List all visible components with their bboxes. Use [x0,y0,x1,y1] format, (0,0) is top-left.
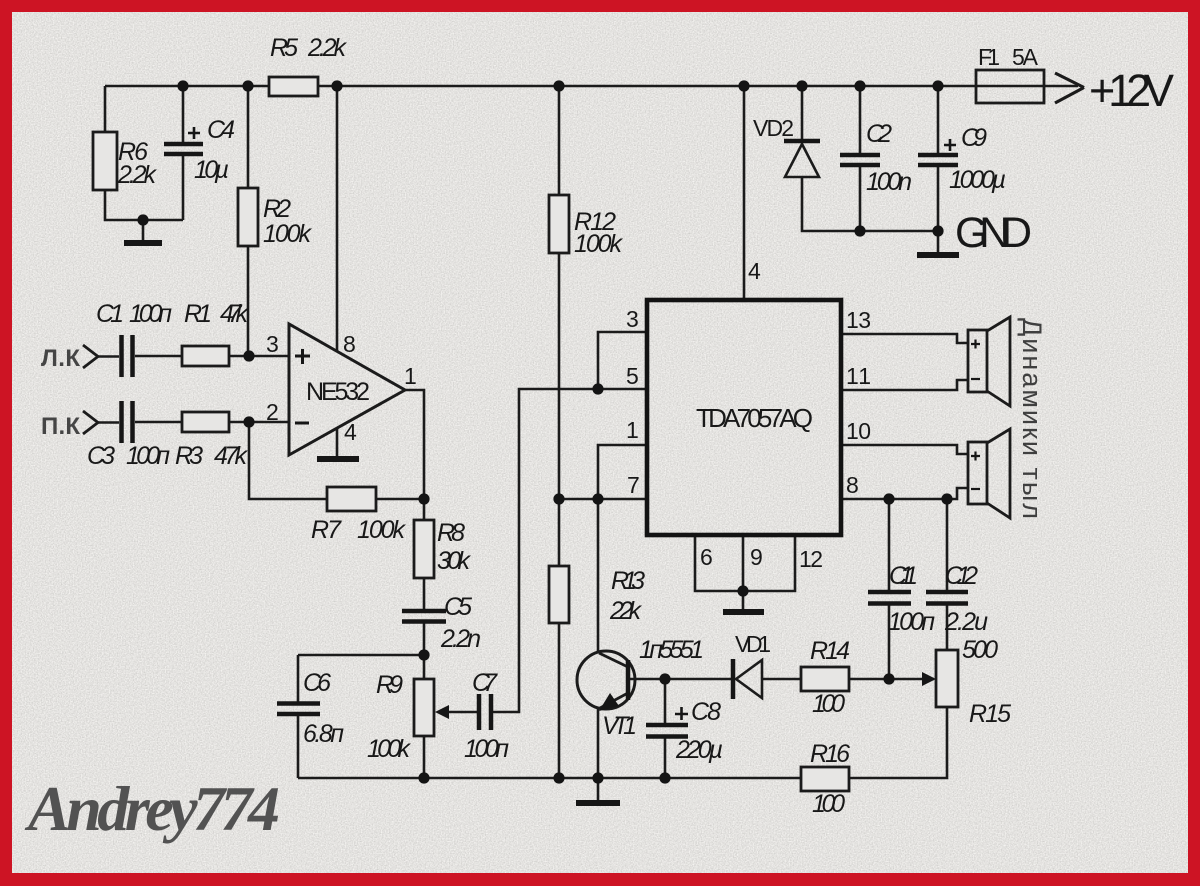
svg-text:7: 7 [627,472,640,498]
svg-text:6.8п: 6.8п [303,720,344,748]
svg-text:C3: C3 [87,442,115,470]
svg-text:2.2k: 2.2k [307,34,348,62]
svg-text:22k: 22k [609,597,643,625]
svg-text:Л.К: Л.К [41,345,80,372]
svg-text:47k: 47k [214,442,249,470]
svg-text:1: 1 [404,363,417,389]
svg-text:10µ: 10µ [194,156,229,184]
svg-text:3: 3 [266,331,279,357]
svg-text:2: 2 [266,399,279,425]
svg-text:VT1: VT1 [602,712,637,740]
svg-text:100п: 100п [129,300,172,328]
svg-text:100n: 100n [866,168,912,196]
svg-text:220µ: 220µ [675,736,723,764]
svg-text:R9: R9 [376,671,403,699]
svg-text:100k: 100k [357,516,407,544]
svg-text:R2: R2 [263,195,291,223]
svg-text:C1: C1 [96,300,124,328]
svg-text:8: 8 [846,472,859,498]
svg-text:C2: C2 [866,120,892,148]
svg-text:10: 10 [846,418,871,444]
svg-text:4: 4 [748,258,761,284]
svg-text:R5: R5 [270,34,298,62]
svg-text:+12V: +12V [1089,65,1174,116]
svg-text:NE532: NE532 [306,378,370,406]
svg-text:13: 13 [846,307,871,333]
svg-text:100: 100 [812,690,845,718]
svg-text:2.2u: 2.2u [944,608,988,636]
svg-text:R14: R14 [810,637,850,665]
svg-text:5: 5 [626,363,639,389]
svg-text:500: 500 [962,636,998,664]
svg-text:R13: R13 [611,567,645,595]
svg-text:C5: C5 [444,593,472,621]
svg-text:Динамики тыл: Динамики тыл [1017,318,1047,519]
svg-text:100п: 100п [888,608,935,636]
svg-text:100k: 100k [574,230,624,258]
svg-text:Andrey774: Andrey774 [24,773,280,844]
svg-text:9: 9 [750,544,763,570]
svg-text:C9: C9 [961,124,987,152]
svg-text:TDA7057AQ: TDA7057AQ [696,403,813,433]
svg-text:100k: 100k [367,735,412,763]
svg-text:4: 4 [344,419,357,445]
svg-text:100: 100 [812,790,845,818]
svg-text:C12: C12 [945,562,978,590]
svg-text:C4: C4 [207,116,235,144]
svg-text:100п: 100п [126,442,170,470]
svg-text:1000µ: 1000µ [949,166,1006,194]
svg-text:R7: R7 [311,516,342,544]
svg-text:R15: R15 [969,700,1011,728]
svg-text:R8: R8 [437,519,465,547]
svg-text:5A: 5A [1012,44,1039,70]
svg-text:VD1: VD1 [735,631,771,657]
svg-text:VD2: VD2 [753,115,794,141]
svg-text:2.2k: 2.2k [117,161,158,189]
svg-text:100п: 100п [464,735,509,763]
svg-text:11: 11 [846,363,871,389]
svg-text:C11: C11 [889,562,918,590]
svg-text:R1: R1 [184,300,212,328]
svg-text:1: 1 [626,417,639,443]
svg-text:П.К: П.К [41,413,80,440]
svg-text:100k: 100k [263,220,313,248]
svg-text:F1: F1 [978,44,1000,70]
svg-text:C6: C6 [303,669,331,697]
svg-text:12: 12 [799,546,823,572]
svg-text:1п5551: 1п5551 [639,636,704,664]
svg-text:47k: 47k [220,300,250,328]
svg-text:2.2n: 2.2n [440,625,481,653]
svg-text:C7: C7 [472,669,498,697]
svg-text:R16: R16 [810,740,850,768]
svg-text:30k: 30k [437,547,472,575]
svg-text:R3: R3 [175,442,203,470]
svg-text:3: 3 [626,306,639,332]
svg-text:GND: GND [955,209,1032,257]
svg-text:8: 8 [343,331,356,357]
svg-text:C8: C8 [691,698,721,726]
svg-text:6: 6 [700,544,713,570]
